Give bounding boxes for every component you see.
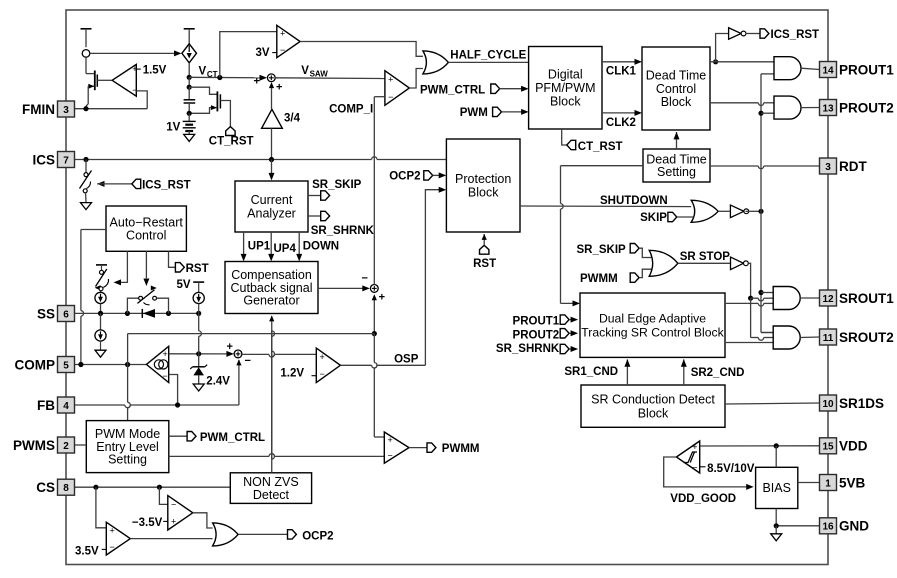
flag SR_SHRNK out [308,211,375,237]
svg-text:16: 16 [822,522,834,533]
svg-text:Generator: Generator [243,294,299,308]
block BIAS [756,467,798,508]
wire dualedge out2 [725,342,773,344]
wire entry level to PWMM [169,454,384,457]
svg-text:SKIP: SKIP [640,212,667,224]
flag PWM_CTRL out [169,432,265,445]
switch SW2 bypass [127,286,168,314]
inverter INV3 [731,257,749,270]
wire DOWN [296,232,339,261]
svg-text:Current: Current [251,193,293,207]
svg-text:3.5V: 3.5V [75,546,99,558]
wire VCT to Q2 drain [188,77,190,87]
svg-text:+: + [692,442,697,452]
flag SR_SKIP out [308,179,362,200]
svg-text:DOWN: DOWN [303,241,339,253]
svg-text:SR_SHRNK: SR_SHRNK [311,225,375,237]
supply rail top-left [81,29,92,47]
wire 3/4 to ICS line [271,128,273,159]
svg-text:PFM/PWM: PFM/PWM [535,81,595,95]
svg-text:8: 8 [63,483,69,494]
svg-text:13: 13 [822,103,834,114]
svg-text:+: + [388,75,393,85]
wire OSP [340,354,425,368]
svg-text:−: − [388,92,393,102]
block Current Analyzer [235,181,308,232]
svg-text:1V: 1V [166,122,180,134]
node GND [774,523,779,528]
wire comp3.5 to OR2 [130,538,212,540]
node COMP b [125,362,130,367]
wire SR2_CND [681,359,745,385]
comparator -3.5V [163,496,193,530]
svg-text:SS: SS [37,306,55,321]
current source I_5V [193,292,204,313]
pin PROUT1 14 [820,62,895,78]
svg-text:SR1DS: SR1DS [839,396,884,411]
flag SKIP in [640,212,693,224]
svg-text:Block: Block [468,186,499,200]
svg-text:V: V [199,65,207,77]
node ICS analyzer [269,157,274,162]
ground below BIAS [771,526,782,541]
svg-text:4: 4 [63,401,69,412]
wire DTS to dual edge [561,166,644,307]
svg-text:FMIN: FMIN [22,102,55,117]
svg-text:10: 10 [822,399,834,410]
svg-text:Block: Block [661,95,692,109]
svg-text:Auto−Restart: Auto−Restart [110,215,184,229]
svg-text:+: + [320,352,325,362]
wire ICS line [75,157,447,160]
flag PWM_CTRL in [420,84,529,96]
svg-text:VDD_GOOD: VDD_GOOD [670,493,736,505]
svg-text:Analyzer: Analyzer [247,207,296,221]
svg-text:PWMM: PWMM [442,443,480,455]
svg-text:Setting: Setting [108,453,147,467]
svg-text:PWM_CTRL: PWM_CTRL [420,84,485,96]
pin ICS 7 [32,152,74,168]
wire dualedge out1 [725,303,773,306]
svg-text:PROUT1: PROUT1 [839,62,894,77]
switch SW1 [95,269,109,291]
svg-text:+: + [163,349,168,359]
pin SROUT1 12 [820,290,895,306]
wire RST out [169,251,176,267]
svg-text:PWMM: PWMM [580,273,618,285]
wire FMIN pin [75,108,148,110]
svg-text:CT_RST: CT_RST [578,141,623,153]
or gate OR3 shutdown [691,200,718,222]
svg-text:PROUT2: PROUT2 [839,100,894,115]
svg-text:PWM_CTRL: PWM_CTRL [200,432,265,444]
wire UP1 [241,232,271,261]
wire COMP_I column [373,97,375,285]
svg-text:+: + [227,341,233,353]
node enable [758,209,763,214]
capacitor C_CT [184,87,196,113]
comparator 3.5V [102,522,131,555]
node VCT [187,65,218,80]
wire UP4 [268,232,296,261]
label 8.5V/10V [700,463,755,475]
summing node S1 [254,74,283,93]
svg-text:−: − [320,369,325,379]
summing node S2 [370,285,378,293]
wire CLK2 [602,110,642,129]
svg-text:BIAS: BIAS [762,481,791,495]
svg-text:Control: Control [126,229,166,243]
svg-text:6: 6 [63,309,69,320]
svg-text:FB: FB [37,398,55,413]
wire enable line x761 [761,74,774,333]
flag CT_RST at Q2 [209,127,254,148]
transistor Q2 CT_RST [189,87,230,126]
wire DTS to DTC [674,132,680,149]
node enable SROUT1 [758,290,763,295]
node SS b [125,311,130,316]
svg-text:HALF_CYCLE: HALF_CYCLE [450,50,526,62]
svg-text:GND: GND [839,519,869,534]
label 1V [166,122,180,134]
flag CT_RST out [562,129,623,153]
comparator PWMM [384,432,409,463]
wire I2 to VCT node [188,63,190,78]
svg-text:CS: CS [36,480,55,495]
pin PWMS 2 [13,437,75,453]
svg-text:OSP: OSP [394,354,419,366]
wire BIAS to 5VB [798,482,820,484]
flag ICS_RST top [746,29,820,41]
current source I1 [82,50,90,58]
wire CS to comp -3.5 [159,487,167,504]
node enable PROUT2 [758,111,763,116]
flag PWMM out [409,443,479,455]
wire VSAW [275,65,385,79]
svg-text:VDD: VDD [839,439,868,454]
svg-text:−: − [132,85,137,95]
wire sum to 3/4 [269,82,274,109]
svg-text:PROUT1: PROUT1 [513,315,560,327]
node DTC out1 [713,59,718,64]
buffer 3/4 [262,109,301,128]
svg-text:−: − [362,272,368,284]
flag SR_SKIP in [577,244,652,258]
wire PWMcomp out to OR1 [409,69,423,89]
node ICS pin side [83,157,88,162]
block NON ZVS Detect [230,473,311,504]
svg-text:−: − [280,45,285,55]
node SS d [196,311,201,316]
comparator PWM (VSAW) [385,71,410,106]
pin FB 4 [37,397,75,413]
svg-text:2: 2 [63,441,69,452]
supply rail above I2 [184,29,195,44]
battery 1V [183,113,196,134]
svg-text:SROUT2: SROUT2 [839,330,894,345]
wire VDD_GOOD [664,457,754,505]
node COMP a [78,362,83,367]
wire VDD sense [700,445,820,447]
node srstop SROUT1 [748,296,753,301]
svg-text:−: − [163,371,168,381]
wire 5V col to zener [199,313,202,353]
ground below zener [193,384,204,391]
and gate AND4 SROUT2 [773,326,800,349]
svg-text:SR_SHRNK: SR_SHRNK [496,343,560,355]
svg-text:V: V [301,65,309,77]
svg-text:Digital: Digital [548,68,583,82]
node COMP branch [372,331,377,336]
or gate OR1 [423,51,449,74]
wire INV1 to enable line [746,210,762,212]
label 3V [256,47,270,59]
svg-text:11: 11 [823,333,834,344]
block Dead Time Control [642,47,710,130]
pin FMIN 3 [22,101,75,117]
wire S3 to 1.2V comp [242,354,316,357]
svg-text:1.2V: 1.2V [280,368,304,380]
pin CS 8 [36,479,74,495]
wire FB up into S3 [236,359,241,405]
pin SS 6 [37,306,75,322]
svg-text:SR2_CND: SR2_CND [691,367,745,379]
wire INV3 down [748,263,750,298]
svg-text:RDT: RDT [839,159,867,174]
wire VCT to sum [189,75,267,81]
or gate OR2 OCP2 [213,523,239,546]
node VDD [774,443,779,448]
node C bottom [187,111,192,116]
svg-text:Setting: Setting [657,165,696,179]
svg-text:+: + [388,435,393,445]
svg-text:ICS_RST: ICS_RST [771,29,820,41]
wire gm minus to FB [169,375,178,406]
svg-text:7: 7 [63,155,69,166]
wire restart ctl switch1 [114,251,128,285]
wire comp1.5 minus to FMIN [136,91,147,109]
block SR Conduction [581,385,725,427]
wire CS line [75,486,231,488]
and gate AND2 [774,96,801,119]
wire srstop to SROUT2 gate [751,298,774,340]
svg-text:Dual Edge Adaptive: Dual Edge Adaptive [599,312,706,326]
svg-text:SR STOP: SR STOP [680,251,731,263]
node SS c [166,311,171,316]
flag PWM in [460,107,529,119]
svg-text:3: 3 [825,162,831,173]
wire SR1_CND [564,359,630,385]
label 1.2V [280,368,304,380]
node VCT tap [217,75,222,80]
svg-text:−3.5V: −3.5V [132,517,163,529]
svg-text:RST: RST [186,263,209,275]
svg-text:1.5V: 1.5V [143,65,167,77]
opamp gm COMP [146,346,168,382]
flag OCP2 in [389,170,446,182]
svg-text:CLK2: CLK2 [606,117,636,129]
wire to SR1DS [725,403,820,404]
svg-text:CLK1: CLK1 [606,66,637,78]
pin SROUT2 11 [820,329,894,345]
node SS a [98,311,103,316]
svg-text:UP1: UP1 [248,241,271,253]
svg-text:+: + [110,526,115,536]
svg-text:+: + [171,517,176,527]
svg-text:COMP_I: COMP_I [329,104,373,116]
wire COMP down to PWM mode [128,365,131,421]
block Compensation Cutback [225,262,318,314]
node FMIN [83,106,88,111]
svg-text:14: 14 [822,65,834,76]
wire HALF_CYCLE [448,50,529,63]
wire NONZVS to compensation [269,315,274,472]
wire AutoRestart to COMP sense [81,230,106,365]
wire DTC out1 to AND1 [710,61,774,63]
current source I_SS2 [95,313,106,350]
discharge arrow below SW_ICS [81,203,92,210]
comparator 1.2V OSP [312,348,341,383]
svg-text:+: + [280,29,285,39]
svg-text:PWMS: PWMS [13,438,55,453]
wire ICS to analyzer [269,160,275,181]
block PWM Mode Entry [86,421,169,473]
comparator 3V [272,25,300,57]
wire SR STOP [678,251,731,263]
wire COMP up into S2 [372,294,377,333]
node FB gm [175,402,180,407]
flag ICS_RST control [97,179,191,191]
svg-text:ICS: ICS [32,152,55,167]
svg-text:−: − [388,451,393,461]
current source I_SS1 [95,291,106,314]
wire VCT up to 3V comp [220,32,277,78]
wire PWMS pin [75,444,87,446]
flag PROUT2 in [513,329,579,342]
wire SS line [75,312,199,314]
wire CLK1 [602,59,642,78]
label COMP_I [329,104,373,116]
svg-text:Protection: Protection [455,172,511,186]
node 2.4V ref [196,351,201,356]
pin RDT 3 [820,158,868,174]
flag PROUT1 in [513,315,579,328]
label 3.5V [75,546,99,558]
supply T switch1 [96,265,107,270]
wire gm plus to 2.4V node [169,351,234,357]
supply 5V [177,279,205,292]
svg-text:CT_RST: CT_RST [209,136,254,148]
svg-text:PWM: PWM [460,107,488,119]
pin COMP 5 [15,357,75,373]
svg-text:−: − [110,542,115,552]
block Dual Edge SR [580,293,725,357]
transistor Q1 [86,57,112,108]
pin VDD 15 [820,438,868,454]
wire RDT [710,166,820,169]
svg-text:SROUT1: SROUT1 [839,291,894,306]
wire srstop to SROUT1 gate [751,298,774,301]
block Dead Time Setting [643,149,710,182]
wire cutback to S2 [318,272,385,303]
wire SHUTDOWN [520,195,691,207]
svg-text:Detect: Detect [253,488,290,502]
block Digital PFM/PWM [529,47,602,130]
wire I1 to I2 mirror [90,50,182,56]
svg-text:SR_SKIP: SR_SKIP [577,244,627,256]
wire AND1 to pin14 [801,68,820,69]
svg-text:Control: Control [656,82,696,96]
svg-text:SHUTDOWN: SHUTDOWN [600,195,668,207]
flag PWMM in [580,269,651,285]
svg-text:RST: RST [473,258,496,270]
or gate OR4 SR STOP [649,250,678,276]
svg-text:Dead Time: Dead Time [646,68,706,82]
svg-text:5V: 5V [177,279,191,291]
svg-text:15: 15 [822,442,834,453]
pin SR1DS 10 [820,395,885,411]
pin 5VB 1 [820,475,866,491]
wire COMP line [75,364,147,366]
and gate AND1 [774,57,801,80]
wire BIAS to GND [776,509,819,526]
node Q2 drain [187,85,192,90]
svg-text:Block: Block [638,406,669,420]
svg-text:−: − [245,355,251,367]
wire BIAS to VDD [775,446,777,467]
inverter INV1 [718,205,748,218]
switch SW_ICS [80,160,92,203]
svg-text:+: + [276,81,282,93]
svg-text:+: + [379,291,385,303]
node CS a [93,485,98,490]
wire COMP_I to PWM comp minus [374,96,385,98]
svg-text:Block: Block [550,94,581,108]
comparator VDD good [676,441,699,473]
svg-text:2.4V: 2.4V [206,375,230,387]
comparator 1.5V [112,64,137,96]
svg-text:−: − [171,499,176,509]
inverter INV2 ICS_RST [729,28,746,40]
svg-text:5: 5 [63,360,69,371]
label 2.4V [206,375,230,387]
svg-text:Tracking SR Control Block: Tracking SR Control Block [581,325,724,339]
summing node S3 [227,341,251,367]
svg-text:3V: 3V [256,47,270,59]
wire enable to SROUT2 gate [761,332,773,334]
wire to INV2 [716,34,729,62]
wire restart ctl switch2 [143,251,149,286]
flag RST [175,263,208,276]
svg-text:SR_SKIP: SR_SKIP [312,179,362,191]
wire DTC out2 to AND2 [710,103,774,106]
wire enable to PROUT2 gate [761,112,774,114]
wire AND4 to pin11 [800,336,819,339]
svg-text:−: − [692,462,697,472]
wire AND2 to pin13 [801,107,820,109]
wire FB line [75,405,239,408]
zener 2.4V [190,354,207,384]
pin PROUT2 13 [820,100,894,116]
wire AND3 to pin12 [800,297,819,299]
svg-text:1: 1 [825,478,831,489]
wire OSP up to protection [425,187,446,366]
wire CS to comp 3.5 [96,487,106,528]
svg-text:OCP2: OCP2 [302,530,333,542]
wire comp-3.5 to OR2 [193,513,213,528]
flag RST in [473,234,496,270]
svg-text:5VB: 5VB [839,475,866,490]
